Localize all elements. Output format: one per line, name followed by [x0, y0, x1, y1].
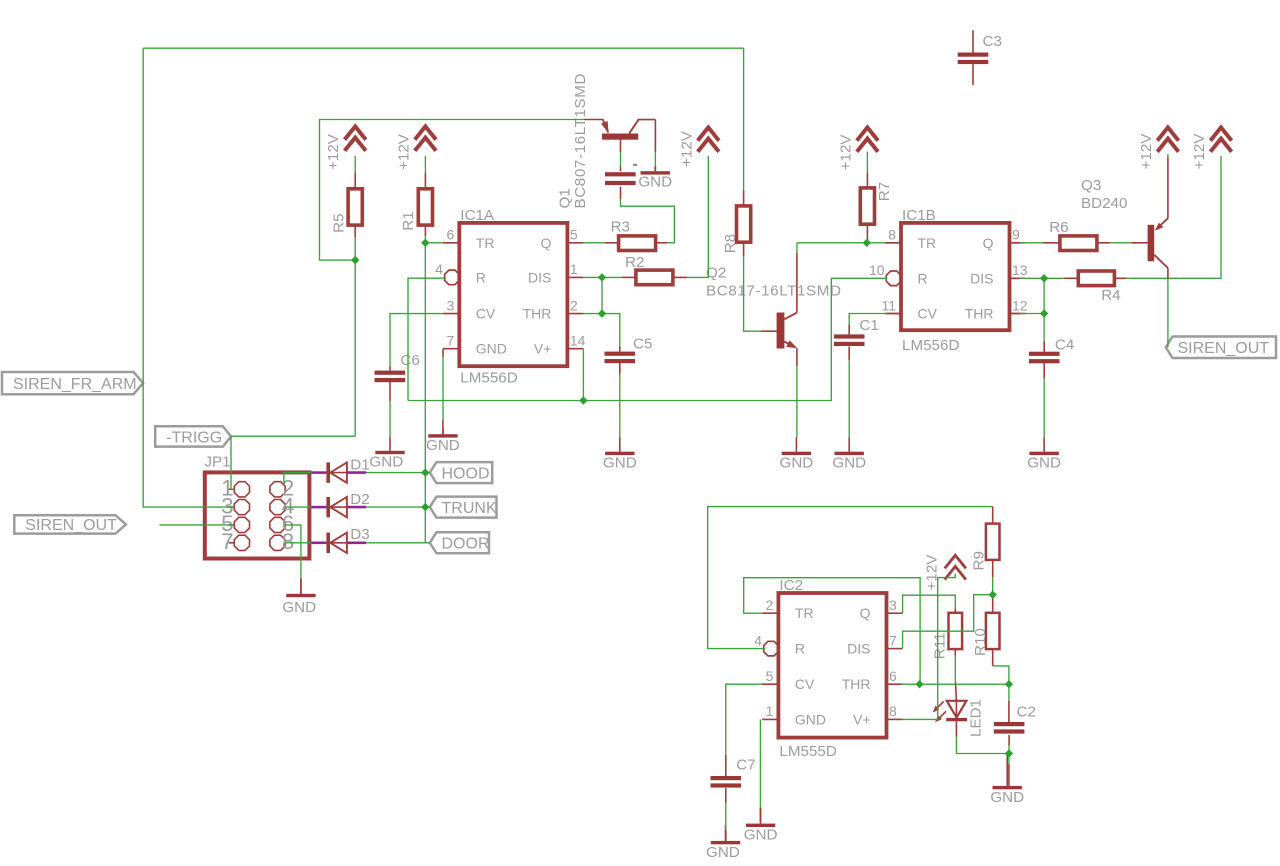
- wire: [1114, 277, 1126, 279]
- svg-text:GND: GND: [426, 437, 460, 454]
- svg-text:GND: GND: [744, 827, 778, 844]
- diode D3: [326, 526, 369, 553]
- wire: [1126, 156, 1221, 278]
- wire: [849, 314, 887, 326]
- ground: [990, 754, 1024, 807]
- ground: [706, 825, 740, 861]
- wire: [389, 381, 391, 401]
- wire: [1008, 754, 1010, 765]
- wire: [796, 243, 798, 253]
- svg-text:C2: C2: [1017, 704, 1036, 721]
- svg-text:12: 12: [1012, 297, 1028, 313]
- svg-text:D3: D3: [350, 526, 369, 543]
- wire: [1043, 278, 1045, 313]
- net label DOOR: [430, 532, 490, 553]
- wire: [972, 64, 974, 85]
- svg-text:TR: TR: [795, 605, 814, 621]
- ground: [1027, 437, 1061, 471]
- wire: [354, 173, 356, 189]
- wire: [424, 236, 426, 243]
- LED LED1: [933, 699, 985, 737]
- svg-text:C3: C3: [983, 33, 1002, 50]
- svg-text:C4: C4: [1055, 336, 1074, 353]
- capacitor C5: [605, 336, 653, 364]
- svg-text:THR: THR: [842, 676, 871, 692]
- wire: [366, 542, 430, 544]
- wire: [354, 225, 356, 237]
- wire: [673, 276, 687, 278]
- wire: [1044, 277, 1064, 279]
- transistor Q2: [706, 265, 842, 349]
- svg-text:1: 1: [766, 703, 774, 719]
- wire: [797, 242, 886, 244]
- svg-text:Q: Q: [860, 605, 871, 621]
- junction: [1040, 309, 1048, 317]
- svg-text:R8: R8: [722, 234, 739, 253]
- wire: [903, 595, 956, 613]
- svg-text:R3: R3: [611, 219, 630, 236]
- svg-text:14: 14: [570, 333, 586, 349]
- capacitor C3: [958, 33, 1002, 64]
- svg-text:C1: C1: [859, 317, 878, 334]
- wire: [1167, 154, 1169, 158]
- svg-text:7: 7: [221, 529, 234, 554]
- junction: [351, 256, 359, 264]
- svg-text:3: 3: [447, 297, 455, 313]
- wire: [708, 507, 993, 649]
- wire: [143, 47, 743, 49]
- resistor R4: [1078, 271, 1120, 304]
- svg-text:11: 11: [881, 297, 896, 313]
- svg-text:R11: R11: [932, 632, 949, 659]
- svg-text:DIS: DIS: [528, 269, 551, 285]
- capacitor polarity minus: [633, 164, 637, 166]
- wire: [1043, 314, 1045, 342]
- wire: [759, 808, 761, 823]
- svg-text:10: 10: [869, 262, 885, 278]
- svg-text:R7: R7: [876, 182, 893, 201]
- wire: [620, 140, 622, 153]
- svg-text:CV: CV: [918, 306, 938, 322]
- ground: [426, 420, 460, 454]
- wire: [954, 608, 956, 612]
- svg-text:HOOD: HOOD: [442, 465, 490, 482]
- svg-text:THR: THR: [965, 306, 994, 322]
- +12V supply symbol: [923, 554, 966, 591]
- svg-text:6: 6: [447, 227, 455, 243]
- wire: [955, 683, 958, 701]
- wire: [902, 574, 956, 720]
- wire: [848, 360, 850, 437]
- +12V supply symbol: [325, 126, 366, 170]
- wire: [1008, 684, 1010, 701]
- svg-text:2: 2: [766, 597, 774, 613]
- svg-text:Q: Q: [983, 235, 994, 251]
- ground: [603, 437, 637, 471]
- wire: [142, 48, 144, 383]
- svg-text:+12V: +12V: [679, 130, 696, 167]
- wire: [285, 542, 311, 544]
- wire: [1008, 735, 1010, 746]
- svg-text:LM556D: LM556D: [460, 369, 517, 386]
- svg-text:LM555D: LM555D: [779, 743, 836, 760]
- svg-text:DIS: DIS: [847, 641, 870, 657]
- resistor R2: [625, 254, 673, 285]
- wire: [231, 435, 355, 437]
- resistor R8: [722, 206, 751, 253]
- wire: [848, 347, 850, 361]
- wire: [583, 276, 622, 278]
- svg-text:GND: GND: [369, 453, 403, 470]
- wire: [992, 595, 994, 613]
- wire: [992, 561, 994, 578]
- svg-text:D2: D2: [350, 491, 369, 508]
- transistor Q1: [557, 73, 656, 209]
- wire: [354, 156, 356, 173]
- svg-text:THR: THR: [523, 306, 552, 322]
- capacitor CQ1: [605, 172, 636, 185]
- wire: [848, 325, 850, 334]
- wire: [1043, 363, 1045, 378]
- svg-text:Q3: Q3: [1081, 177, 1101, 194]
- wire: [601, 277, 603, 313]
- capacitor C6: [375, 352, 420, 382]
- wire: [654, 167, 656, 172]
- wire: [866, 173, 868, 188]
- wire: [866, 224, 868, 243]
- wire: [1167, 158, 1169, 219]
- svg-text:V+: V+: [534, 341, 552, 357]
- svg-text:BC817-16LT1SMD: BC817-16LT1SMD: [706, 283, 842, 300]
- svg-text:7: 7: [889, 632, 897, 648]
- wire: [284, 473, 312, 485]
- svg-text:2: 2: [570, 297, 578, 313]
- junction: [598, 273, 606, 281]
- wire: [1008, 746, 1010, 754]
- wire: [583, 313, 602, 315]
- wire: [1043, 242, 1060, 244]
- wire: [1008, 764, 1010, 786]
- +12V supply symbol: [1138, 127, 1179, 169]
- svg-text:D1: D1: [350, 457, 369, 474]
- svg-text:BC807-16LT1SMD: BC807-16LT1SMD: [572, 73, 589, 209]
- wire: [320, 120, 585, 261]
- svg-text:-TRIGG: -TRIGG: [166, 429, 222, 446]
- svg-text:+12V: +12V: [838, 134, 855, 171]
- svg-text:8: 8: [889, 703, 897, 719]
- svg-text:GND: GND: [990, 789, 1024, 806]
- wire: [619, 363, 621, 374]
- svg-text:R: R: [795, 641, 805, 657]
- wire: [143, 383, 234, 507]
- junction: [989, 591, 997, 599]
- svg-text:8: 8: [888, 227, 896, 243]
- svg-text:4: 4: [754, 632, 762, 648]
- ground: [282, 578, 316, 616]
- wire: [620, 187, 622, 199]
- wire: [408, 278, 446, 400]
- wire: [442, 357, 444, 420]
- wire: [366, 472, 430, 474]
- wire: [1010, 313, 1021, 315]
- svg-text:R4: R4: [1101, 287, 1120, 304]
- svg-text:JP1: JP1: [204, 454, 230, 471]
- wire: [796, 253, 798, 313]
- svg-text:GND: GND: [603, 455, 637, 472]
- ground: [832, 437, 866, 471]
- wire: [1043, 378, 1045, 437]
- wire: [954, 648, 956, 656]
- wire: [955, 721, 957, 736]
- +12V supply symbol: [679, 127, 719, 167]
- wire: [620, 152, 622, 167]
- svg-text:+12V: +12V: [325, 133, 342, 170]
- junction: [863, 239, 871, 247]
- wire: [442, 429, 444, 435]
- resistor R10: [972, 613, 999, 656]
- wire: [726, 684, 762, 755]
- wire: [231, 436, 234, 489]
- ground: [780, 437, 814, 471]
- wire: [424, 243, 426, 543]
- wire: [1132, 242, 1148, 244]
- transistor Q3: [1081, 177, 1168, 268]
- svg-text:R2: R2: [625, 254, 644, 271]
- wire: [744, 256, 761, 331]
- svg-text:+12V: +12V: [1138, 133, 1155, 170]
- wire: [424, 225, 426, 236]
- wire: [796, 348, 798, 366]
- capacitor C1: [834, 317, 879, 346]
- wire: [605, 242, 619, 244]
- wire: [442, 349, 444, 357]
- ground: [744, 808, 778, 844]
- svg-text:+12V: +12V: [395, 133, 412, 170]
- wire: [954, 656, 956, 683]
- svg-text:R6: R6: [1049, 219, 1068, 236]
- +12V supply symbol: [395, 126, 436, 170]
- wire: [602, 314, 620, 347]
- wire: [743, 48, 745, 190]
- wire: [622, 276, 636, 278]
- wire: [993, 666, 1009, 684]
- wire: [620, 167, 622, 172]
- svg-text:IC2: IC2: [779, 577, 803, 594]
- net label TRUNK: [430, 497, 497, 518]
- op-amp IC1A (LM556D timer A): [435, 207, 586, 386]
- svg-text:+12V: +12V: [1191, 133, 1208, 170]
- resistor R7: [860, 182, 893, 224]
- svg-text:DOOR: DOOR: [442, 536, 490, 553]
- wire: [583, 242, 604, 244]
- wire: [424, 173, 426, 189]
- wire: [1020, 277, 1044, 279]
- wire: [902, 683, 1009, 685]
- wire: [655, 242, 667, 244]
- svg-text:GND: GND: [476, 341, 507, 357]
- svg-text:C7: C7: [736, 757, 755, 774]
- svg-text:3: 3: [889, 597, 897, 613]
- svg-text:R1: R1: [400, 211, 417, 230]
- svg-text:C6: C6: [400, 352, 419, 369]
- wire: [389, 401, 391, 437]
- junction: [915, 680, 923, 688]
- svg-text:5: 5: [766, 668, 774, 684]
- svg-text:SIREN_FR_ARM: SIREN_FR_ARM: [13, 376, 137, 393]
- junction: [1005, 749, 1013, 757]
- wire: [725, 803, 727, 830]
- wire: [1010, 242, 1021, 244]
- svg-text:Q: Q: [541, 235, 552, 251]
- wire: [347, 541, 366, 544]
- wire: [1167, 268, 1169, 279]
- wire: [654, 120, 656, 153]
- wire: [956, 737, 1009, 754]
- wire: [725, 788, 727, 803]
- wire: [311, 541, 326, 544]
- wire: [992, 577, 994, 594]
- resistor R1: [400, 189, 433, 231]
- wire: [619, 347, 621, 352]
- wire: [887, 313, 901, 315]
- wire: [354, 237, 356, 436]
- svg-text:R: R: [918, 270, 928, 286]
- svg-text:DIS: DIS: [970, 270, 993, 286]
- ground: [638, 167, 672, 191]
- wire: [886, 242, 902, 244]
- wire: [1008, 701, 1010, 722]
- wire: [796, 366, 798, 437]
- svg-text:1: 1: [570, 261, 578, 277]
- svg-text:SIREN_OUT: SIREN_OUT: [25, 517, 117, 534]
- wire: [1167, 279, 1169, 347]
- svg-text:R: R: [476, 269, 486, 285]
- wire: [347, 471, 366, 474]
- svg-text:5: 5: [570, 227, 578, 243]
- net label SIREN_OUT: [1166, 337, 1276, 359]
- svg-text:4: 4: [435, 261, 443, 277]
- wire: [390, 314, 443, 367]
- junction: [1040, 274, 1048, 282]
- svg-text:IC1A: IC1A: [460, 207, 495, 224]
- svg-text:7: 7: [447, 333, 455, 349]
- svg-text:CV: CV: [476, 306, 496, 322]
- wire: [992, 648, 994, 666]
- wire: [1020, 313, 1044, 315]
- capacitor C4: [1029, 336, 1074, 363]
- resistor R6: [1049, 219, 1097, 251]
- svg-text:CV: CV: [795, 676, 815, 692]
- svg-text:GND: GND: [832, 455, 866, 472]
- resistor R11: [932, 613, 963, 659]
- wire: [425, 242, 443, 244]
- svg-text:GND: GND: [780, 455, 814, 472]
- svg-text:TRUNK: TRUNK: [442, 500, 497, 517]
- wire: [992, 507, 994, 524]
- diode D1: [326, 457, 369, 483]
- wire: [743, 243, 745, 257]
- wire: [1020, 242, 1043, 244]
- wire: [159, 524, 233, 526]
- svg-text:Q2: Q2: [706, 265, 726, 282]
- capacitor C7: [711, 757, 756, 788]
- svg-text:8: 8: [282, 529, 295, 554]
- svg-text:SIREN_OUT: SIREN_OUT: [1178, 340, 1270, 357]
- net label HOOD: [430, 462, 492, 483]
- junction: [421, 468, 429, 476]
- svg-text:9: 9: [1012, 227, 1020, 243]
- svg-text:GND: GND: [706, 844, 740, 861]
- wire: [1110, 242, 1132, 244]
- connector JP1: [204, 454, 309, 559]
- svg-text:GND: GND: [638, 174, 672, 191]
- +12V supply symbol: [1191, 127, 1232, 169]
- wire: [311, 506, 326, 509]
- svg-text:13: 13: [1012, 262, 1028, 278]
- net label SIREN_OUT: [14, 515, 126, 534]
- ground: [369, 437, 404, 470]
- junction: [598, 309, 606, 317]
- wire: [582, 349, 584, 401]
- wire: [619, 374, 621, 437]
- svg-text:GND: GND: [1027, 455, 1061, 472]
- svg-text:TR: TR: [918, 235, 937, 251]
- junction: [579, 396, 587, 404]
- resistor R3: [611, 219, 656, 251]
- wire: [761, 330, 777, 332]
- wire: [1043, 342, 1045, 352]
- svg-text:BD240: BD240: [1081, 195, 1127, 212]
- wire: [389, 366, 391, 370]
- wire: [687, 156, 708, 278]
- wire: [654, 152, 656, 167]
- svg-text:TR: TR: [476, 235, 495, 251]
- op-amp IC2 (LM555D timer): [754, 577, 902, 760]
- svg-text:C5: C5: [633, 336, 652, 353]
- wire: [744, 578, 920, 685]
- net label -TRIGG: [155, 426, 231, 446]
- wire: [866, 152, 868, 173]
- net label SIREN_FR_ARM: [2, 372, 143, 394]
- svg-text:LM556D: LM556D: [902, 337, 959, 354]
- wire: [311, 471, 326, 474]
- junction: [421, 503, 429, 511]
- wire: [347, 506, 366, 509]
- resistor R9: [971, 524, 1000, 571]
- op-amp IC1B (LM556D timer B): [869, 207, 1028, 354]
- wire: [621, 199, 675, 243]
- diode D2: [326, 491, 369, 517]
- svg-text:LED1: LED1: [968, 699, 985, 737]
- svg-text:R5: R5: [331, 213, 348, 232]
- wire: [1010, 277, 1021, 279]
- svg-text:GND: GND: [282, 599, 316, 616]
- svg-text:GND: GND: [795, 711, 826, 727]
- svg-text:R10: R10: [972, 628, 989, 656]
- wire: [1098, 242, 1110, 244]
- resistor R5: [331, 189, 363, 233]
- wire: [725, 830, 727, 841]
- wire: [903, 595, 993, 649]
- svg-text:V+: V+: [853, 711, 871, 727]
- wire: [1064, 277, 1078, 279]
- wire: [424, 156, 426, 173]
- wire: [300, 578, 302, 594]
- wire: [408, 278, 887, 400]
- wire: [759, 719, 761, 807]
- wire: [285, 525, 301, 578]
- capacitor C2: [994, 704, 1036, 734]
